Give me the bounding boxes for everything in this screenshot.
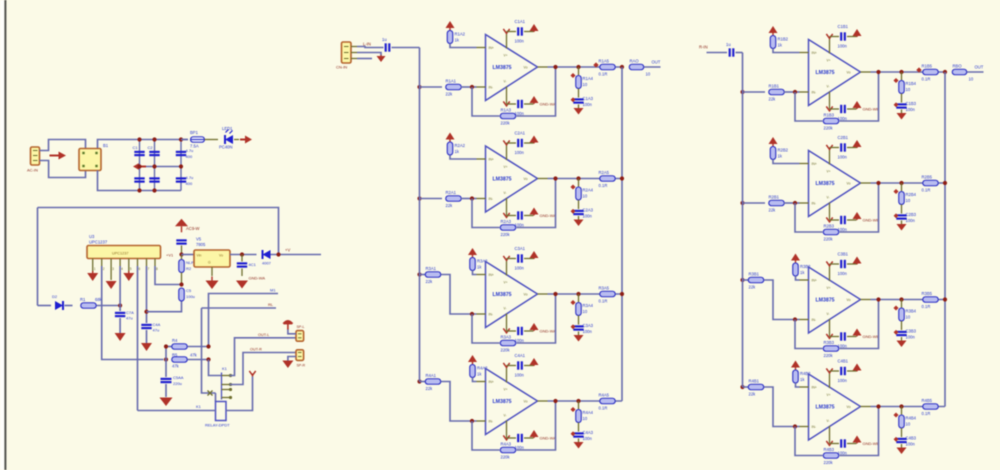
node R5 junction (206, 357, 210, 361)
wire bias resistor to non-inverting input (450, 44, 477, 48)
wire D1 to power arrow (234, 139, 239, 141)
bridge rectifier B1 (79, 149, 101, 171)
svg-text:GND-WA: GND-WA (540, 213, 557, 218)
power port -V arrow amp 4A (533, 437, 535, 438)
pin non-inverting input U4A (477, 381, 486, 383)
wire V5 output (230, 254, 257, 256)
wire cap column C1 (139, 140, 141, 191)
wire cap to power arrow (847, 108, 857, 110)
capacitor C4B1 100n (V+ decoupling) (840, 367, 842, 375)
power port +V arrow amp 4A (533, 365, 535, 366)
svg-text:4007: 4007 (262, 261, 272, 266)
svg-text:V-: V- (827, 312, 830, 316)
svg-text:GND-WA: GND-WA (540, 329, 557, 334)
resistor R4 47k (172, 344, 188, 350)
svg-text:V+: V+ (504, 165, 508, 169)
wire bus to R3B1 (743, 279, 749, 281)
wire J2 pin2 to ground (357, 53, 381, 56)
svg-text:400: 400 (186, 154, 193, 159)
power bar V+ amp 3A (503, 256, 509, 260)
pin 3 J2 (351, 58, 357, 60)
svg-text:IN-: IN- (812, 318, 817, 322)
resistor R5 47k (172, 357, 188, 363)
node R4 junction (206, 344, 210, 348)
node top rail junction C2 (152, 137, 156, 141)
node inverting input junction amp 2B (793, 201, 797, 205)
wire D2 to R1 (65, 305, 73, 307)
svg-text:V-: V- (504, 307, 507, 311)
svg-text:C2A3: C2A3 (583, 208, 594, 213)
power port +V arrow amp 3A (533, 258, 535, 259)
wire bridge positive to top rail (98, 140, 189, 149)
svg-text:RAO: RAO (630, 59, 640, 64)
wire feedback return amp 1B (840, 72, 879, 121)
pin 3 P1 (33, 160, 38, 162)
svg-text:OUT-R: OUT-R (250, 348, 262, 352)
resistor R1 68k (81, 303, 97, 309)
svg-text:R1A5: R1A5 (599, 59, 610, 64)
power port PE arrow (50, 155, 59, 157)
erc marker zobel C amp 4B (894, 437, 899, 442)
svg-text:1u: 1u (726, 42, 731, 47)
wire R4 net stub (166, 346, 172, 348)
svg-text:R2: R2 (186, 266, 192, 271)
pin output U4A (538, 400, 548, 402)
svg-text:100n: 100n (583, 214, 593, 219)
erc marker zobel R amp 3A (570, 300, 575, 305)
svg-text:CN-IN: CN-IN (336, 65, 347, 70)
ground arrow U3 pin5 (128, 271, 130, 273)
wire R1B1 to inverting input (784, 91, 800, 93)
wire R4-R5 junction link down (209, 360, 222, 376)
pin 1 J2 (351, 46, 357, 48)
wire output amp 1B (871, 71, 946, 73)
pin 7 U3 (146, 259, 148, 267)
svg-text:Vo: Vo (524, 177, 528, 181)
wire input bus column B (742, 53, 744, 388)
wire cap column C2 (154, 140, 156, 191)
svg-text:R-IN: R-IN (699, 45, 708, 50)
power bar V- amp 3A (503, 328, 509, 332)
svg-text:100n: 100n (906, 218, 916, 223)
svg-text:IN+: IN+ (489, 46, 494, 50)
wire cap to power arrow (524, 330, 534, 332)
svg-text:100n: 100n (515, 373, 525, 378)
svg-text:10: 10 (906, 422, 911, 427)
wire output amp 3A (548, 293, 623, 295)
wire V+ decoupling (830, 263, 840, 265)
wire V- decoupling (507, 330, 517, 332)
wire R4 right to junction (188, 346, 209, 348)
pin V- U4B (829, 426, 831, 444)
wire U3 pin3 to ground (110, 266, 112, 280)
pin 8 U3 (154, 259, 156, 267)
svg-text:4: 4 (121, 267, 123, 271)
svg-text:22k: 22k (426, 279, 434, 284)
svg-text:+V1: +V1 (166, 253, 174, 258)
capacitor C3A2 100n (V- decoupling) (517, 327, 519, 335)
svg-text:V-: V- (504, 414, 507, 418)
wire C8 tap down (241, 255, 243, 262)
wire zobel cap to ground amp 3A (578, 332, 580, 336)
svg-text:V-: V- (504, 191, 507, 195)
wire J4 pin2 to ground (288, 357, 296, 361)
capacitor C4A3 100n (zobel) (573, 432, 583, 434)
svg-text:M1: M1 (270, 288, 276, 293)
svg-text:100n: 100n (515, 150, 525, 155)
power bar V- amp 2A (503, 213, 509, 217)
wire feedback down-run amp 1B (795, 92, 823, 121)
svg-text:C3B1: C3B1 (838, 252, 849, 257)
svg-text:R5: R5 (172, 353, 178, 358)
node C5AA tap (164, 344, 168, 348)
wire Q1 to relay coil top (215, 393, 217, 402)
svg-text:IN-: IN- (489, 313, 494, 317)
pin V+ U4B (829, 371, 831, 388)
node pin7 link junction (144, 310, 148, 314)
svg-text:0.1R: 0.1R (922, 77, 931, 82)
wire bias resistor to non-inverting input (796, 383, 800, 387)
wire R to C zobel amp 1B (901, 94, 903, 103)
svg-text:R2B2: R2B2 (778, 148, 789, 153)
pin inverting input U1A (477, 86, 486, 88)
svg-text:LM3875: LM3875 (493, 177, 512, 183)
svg-text:IN-: IN- (489, 420, 494, 424)
resistor R3A5 0R1 (ballast) (600, 291, 616, 297)
wire zobel down amp 1A (578, 67, 580, 75)
pin non-inverting input U1A (477, 47, 486, 49)
svg-text:V-: V- (827, 85, 830, 89)
pin output U2A (538, 178, 548, 180)
capacitor C3 4.7u/400V (top) (176, 151, 186, 153)
diode D1 1N4007 (225, 135, 233, 144)
power port +V arrow amp 2A (533, 143, 535, 144)
svg-text:47k: 47k (190, 353, 198, 358)
wire top rail to fuse (181, 139, 188, 141)
svg-text:R2B1: R2B1 (769, 195, 780, 200)
wire +V node to regulator (182, 254, 195, 256)
node inverting input junction amp 1B (793, 90, 797, 94)
svg-text:10: 10 (583, 82, 588, 87)
capacitor C1B2 100n (V- decoupling) (840, 105, 842, 113)
resistor R2A1 22k (input) (446, 196, 462, 202)
ground arrow zobel amp 4B (897, 448, 907, 455)
node IN bus tap amp 4B (740, 385, 744, 389)
svg-text:0.1R: 0.1R (922, 411, 931, 416)
node output junction amp 2A (553, 176, 557, 180)
power port -V arrow amp 3A (533, 330, 535, 331)
pin output U1B (861, 71, 871, 73)
svg-text:R1A2: R1A2 (455, 32, 466, 37)
wire U3 pin5 to ground (128, 266, 130, 272)
svg-text:LM3875: LM3875 (816, 405, 835, 411)
power bar V- amp 1A (503, 101, 509, 105)
svg-text:UPC1237: UPC1237 (112, 252, 128, 256)
wire output bus column A (621, 67, 623, 401)
wire zobel cap to ground amp 2B (901, 221, 903, 225)
svg-text:0.1R: 0.1R (922, 188, 931, 193)
power port V arrow relay (249, 371, 255, 375)
wire U3 pin4 to C7A (119, 266, 121, 311)
node mid rail junction C3 (179, 164, 183, 168)
erc marker output amp 1A (593, 62, 598, 67)
wire bias resistor to non-inverting input (473, 271, 477, 275)
node mid rail junction C1 (137, 164, 141, 168)
svg-text:100n: 100n (838, 271, 848, 276)
power bar V- amp 4B (826, 441, 832, 445)
connector J3 speaker output L (296, 331, 304, 342)
pin V+ U3B (829, 264, 831, 281)
power port AC9-W arrow (181, 226, 183, 232)
svg-text:0.1R: 0.1R (599, 72, 608, 77)
svg-text:4.7u: 4.7u (186, 175, 194, 180)
svg-text:10: 10 (583, 194, 588, 199)
op-amp U1A LM3875 (486, 35, 538, 101)
svg-text:V-: V- (504, 80, 507, 84)
wire R3B1 jog to inverting input (764, 280, 800, 320)
erc marker zobel C amp 1A (571, 97, 576, 102)
pin 1 P1 (33, 150, 38, 152)
svg-text:47k: 47k (172, 364, 180, 369)
svg-text:RL: RL (268, 302, 274, 307)
svg-text:Vo: Vo (524, 66, 528, 70)
capacitor C3B2 100n (V- decoupling) (840, 332, 842, 340)
svg-text:100n: 100n (583, 436, 593, 441)
svg-text:3: 3 (112, 267, 114, 271)
svg-text:100n: 100n (838, 378, 848, 383)
wire R2A1 to inverting input (461, 198, 477, 200)
svg-text:R2A1: R2A1 (446, 190, 457, 195)
pin V- U1B (829, 92, 831, 110)
wire bias resistor to non-inverting input (796, 276, 800, 280)
ground arrow C8 (236, 281, 248, 289)
svg-text:UPC1237: UPC1237 (89, 240, 108, 245)
svg-text:+V: +V (285, 248, 290, 253)
diode D3 1N4007 (263, 250, 271, 259)
node output junction amp 1B (876, 70, 880, 74)
wire zobel down amp 4B (901, 407, 903, 415)
resistor R1A4 2.7 (zobel) (576, 76, 582, 89)
wire zobel down amp 2A (578, 179, 580, 187)
power bar V- amp 4A (503, 435, 509, 439)
svg-text:R2B4: R2B4 (906, 192, 917, 197)
resistor R1B5 0R1 (ballast) (923, 69, 939, 75)
capacitor C1 4700u (top) (134, 151, 144, 153)
node zobel tap amp 1B (899, 70, 903, 74)
svg-text:AC9-W: AC9-W (186, 226, 200, 231)
svg-text:6: 6 (139, 267, 141, 271)
svg-text:220k: 220k (824, 237, 834, 242)
svg-text:BP1: BP1 (190, 130, 199, 135)
wire cap to power arrow (847, 36, 857, 38)
svg-text:V+: V+ (827, 170, 831, 174)
power port -V arrow amp 2B (856, 219, 858, 220)
node bottom rail junction C2 (152, 188, 156, 192)
wire output amp 4B (871, 406, 946, 408)
svg-text:R1B2: R1B2 (778, 37, 789, 42)
wire R1A1 to inverting input (461, 86, 477, 88)
svg-text:0.1R: 0.1R (599, 406, 608, 411)
resistor R2 56k (timing) (179, 260, 185, 273)
wire zobel down amp 3A (578, 294, 580, 302)
wire D3 to +V rail (271, 254, 322, 256)
resistor R4A3 680 (feedback) (500, 447, 516, 453)
node output junction amp 3B (876, 297, 880, 301)
ground arrow U3 pin3 (106, 281, 117, 289)
wire mute line 1 (209, 294, 279, 347)
pin V+ U2A (506, 143, 508, 160)
resistor R1A2 (bias, non-inverting input) (447, 31, 453, 44)
power bar V+ amp 2B (826, 145, 832, 149)
ground arrow V5 (211, 277, 213, 281)
erc marker zobel C amp 1B (894, 102, 899, 107)
power port AGND arrow amp 4A (472, 362, 474, 365)
wire R to C zobel amp 3A (578, 316, 580, 325)
pin 3 U3 (110, 259, 112, 267)
svg-text:V-: V- (827, 196, 830, 200)
wire cap to power arrow (847, 263, 857, 265)
svg-text:LM3875: LM3875 (493, 65, 512, 71)
wire zobel cap to ground amp 2A (578, 216, 580, 220)
node zobel tap amp 4A (576, 399, 580, 403)
node output junction amp 4A (553, 399, 557, 403)
svg-text:R1: R1 (80, 297, 86, 302)
svg-text:R3A5: R3A5 (599, 286, 610, 291)
wire zobel down amp 2B (901, 183, 903, 191)
ground arrow zobel amp 4A (574, 442, 584, 449)
pin output U3A (538, 293, 548, 295)
wire V- decoupling (507, 103, 517, 105)
wire cap column C3 (180, 140, 182, 191)
wire cap to power arrow (524, 31, 534, 33)
pin V- U4A (506, 421, 508, 439)
wire R2 to pin8 node (181, 273, 183, 285)
capacitor C1A3 100n (zobel) (573, 98, 583, 100)
wire feedback return amp 2B (840, 183, 879, 232)
power bar V+ amp 4A (503, 363, 509, 367)
wire bias resistor to non-inverting input (473, 378, 477, 382)
node bottom rail junction C1 (137, 188, 141, 192)
wire V+ decoupling (830, 370, 840, 372)
wire R to C zobel amp 4B (901, 428, 903, 437)
wire feedback return amp 2A (517, 179, 556, 228)
svg-text:10: 10 (906, 198, 911, 203)
diode D1 LED ticks (226, 130, 233, 134)
resistor R2A4 2.7 (zobel) (576, 187, 582, 200)
pin V- U1A (506, 87, 508, 105)
svg-text:C4A: C4A (153, 322, 161, 327)
wire cap to power arrow (847, 147, 857, 149)
wire cap to power arrow (847, 336, 857, 338)
svg-text:OUT: OUT (652, 60, 661, 65)
capacitor C7A 47u (115, 312, 125, 314)
power port +V arrow amp 4B (856, 371, 858, 372)
node cap C8 tap (240, 252, 244, 256)
wire C0A to input bus A (392, 47, 420, 49)
svg-text:IN+: IN+ (812, 279, 817, 283)
pin non-inverting input U2B (800, 163, 809, 165)
svg-text:SP-R: SP-R (297, 364, 306, 368)
node top rail junction C3 (179, 137, 183, 141)
ground arrow zobel amp 1B (897, 113, 907, 120)
wire V+ decoupling (507, 142, 517, 144)
capacitor C2A3 100n (zobel) (573, 210, 583, 212)
wire R5 right to junction (188, 359, 209, 361)
svg-text:C1A3: C1A3 (583, 96, 594, 101)
resistor R4A1 22k (input) (425, 379, 441, 385)
wire output stub B (967, 71, 984, 73)
svg-text:R4A1: R4A1 (426, 373, 437, 378)
capacitor C5 100u electrolytic (timing bottom) (179, 288, 185, 301)
svg-text:220k: 220k (824, 126, 834, 131)
capacitor C3B3 100n (zobel) (896, 331, 906, 333)
ground arrow zobel amp 1A (574, 108, 584, 115)
svg-text:B1: B1 (103, 143, 109, 148)
svg-text:100n: 100n (906, 107, 916, 112)
svg-text:2: 2 (103, 267, 105, 271)
svg-text:V5: V5 (196, 237, 202, 242)
node output bus junction A (620, 292, 624, 296)
svg-text:7.5A: 7.5A (190, 144, 199, 149)
svg-text:C1B1: C1B1 (838, 24, 849, 29)
svg-text:1: 1 (94, 267, 96, 271)
svg-text:22k: 22k (426, 386, 434, 391)
pin 2 U3 (101, 259, 103, 267)
svg-text:0.1R: 0.1R (922, 304, 931, 309)
erc marker zobel R amp 2A (570, 184, 575, 189)
wire C5AA to ground (165, 384, 167, 397)
connector P1 AC power input (31, 147, 40, 165)
resistor RBOUT 10R (output) (952, 69, 967, 75)
svg-text:Vo: Vo (524, 400, 528, 404)
resistor R2B1 22k (input) (769, 200, 785, 206)
svg-text:C3A1: C3A1 (515, 246, 526, 251)
svg-text:IN-: IN- (812, 91, 817, 95)
pin output U4B (861, 406, 871, 408)
resistor R4B1 22k (input) (748, 384, 764, 390)
capacitor C0B 1u (input coupling) (729, 48, 731, 56)
svg-text:C2B1: C2B1 (838, 135, 849, 140)
wire bus to R2B1 (743, 202, 766, 204)
pin GND V5 (211, 267, 213, 276)
svg-text:C3B3: C3B3 (906, 329, 917, 334)
wire cap to power arrow (524, 142, 534, 144)
wire R to C zobel amp 1A (578, 89, 580, 98)
wire relay rail bottom (138, 410, 216, 412)
ground arrow J4 (282, 361, 293, 369)
pin non-inverting input U3A (477, 274, 486, 276)
svg-text:IN-: IN- (489, 86, 494, 90)
power bar V+ amp 4B (826, 368, 832, 372)
power port -V arrow amp 3B (856, 336, 858, 337)
svg-text:10: 10 (969, 77, 974, 82)
capacitor C1B1 100n (V+ decoupling) (840, 32, 842, 40)
op-amp U2A LM3875 (486, 146, 538, 212)
resistor R1A5 0R1 (ballast) (600, 64, 616, 70)
resistor R3B3 680 (feedback) (823, 346, 839, 352)
capacitor C3A1 100n (V+ decoupling) (517, 254, 519, 262)
wire zobel cap to ground amp 1A (578, 105, 580, 109)
pin V+ U1B (829, 37, 831, 54)
resistor R3B5 0R1 (ballast) (923, 297, 939, 303)
wire cap to power arrow (847, 219, 857, 221)
svg-text:IN-: IN- (812, 425, 817, 429)
resistor R2A2 (bias, non-inverting input) (447, 142, 453, 155)
wire V- decoupling (830, 443, 840, 445)
node top rail junction C1 (137, 137, 141, 141)
power port -V arrow amp 2A (533, 215, 535, 216)
svg-text:R1B1: R1B1 (769, 84, 780, 89)
